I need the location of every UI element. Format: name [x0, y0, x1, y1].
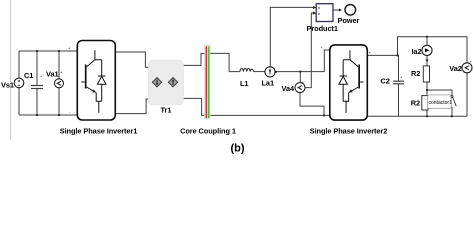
- svg-text:+: +: [369, 50, 372, 55]
- svg-text:La1: La1: [262, 79, 275, 88]
- svg-text:contactor1: contactor1: [429, 100, 453, 106]
- svg-text:Product1: Product1: [307, 24, 338, 33]
- svg-text:+: +: [60, 70, 63, 75]
- svg-text:Va2: Va2: [449, 64, 462, 73]
- svg-text:+: +: [68, 46, 71, 51]
- svg-text:×: ×: [318, 11, 321, 16]
- svg-text:Vs1: Vs1: [1, 81, 14, 90]
- svg-text:Va1: Va1: [46, 70, 59, 79]
- svg-text:L1: L1: [240, 79, 248, 88]
- svg-text:C1: C1: [24, 71, 33, 80]
- svg-text:Single Phase Inverter1: Single Phase Inverter1: [60, 126, 138, 135]
- svg-text:+: +: [400, 75, 403, 80]
- svg-text:Ia2: Ia2: [411, 47, 421, 56]
- svg-text:R2: R2: [411, 98, 420, 107]
- svg-text:Tr1: Tr1: [161, 106, 172, 115]
- svg-text:Power: Power: [338, 16, 360, 25]
- svg-text:R2: R2: [411, 69, 420, 78]
- svg-text:Va4: Va4: [282, 84, 295, 93]
- svg-text:+: +: [302, 80, 305, 85]
- svg-text:+: +: [321, 45, 324, 50]
- svg-text:(b): (b): [230, 143, 244, 155]
- svg-text:+: +: [470, 59, 473, 64]
- svg-text:-: -: [70, 110, 72, 115]
- svg-text:×: ×: [318, 6, 321, 11]
- svg-text:+: +: [40, 74, 43, 79]
- svg-text:Single Phase Inverter2: Single Phase Inverter2: [310, 126, 388, 135]
- svg-text:C2: C2: [381, 77, 390, 86]
- svg-text:Core Coupling 1: Core Coupling 1: [180, 126, 236, 135]
